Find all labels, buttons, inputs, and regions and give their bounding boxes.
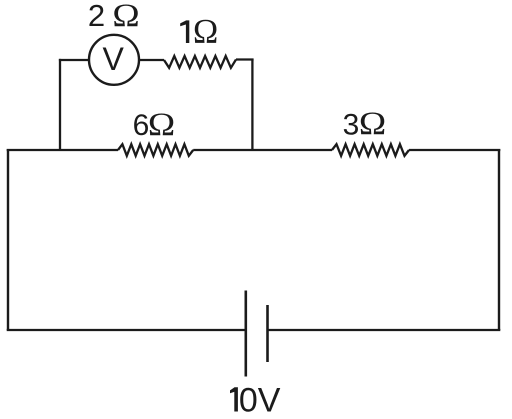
wire: main horizontal right segment (3-ohm to right corner) [409, 149, 500, 151]
svg-text:Ω: Ω [193, 13, 218, 52]
wire: main horizontal left segment (node A to 6-ohm) [7, 149, 118, 151]
label 10V [230, 382, 281, 419]
wire: right vertical of outer loop [498, 149, 500, 330]
resistor 6Ω [118, 144, 193, 156]
label 3Ω [343, 105, 387, 142]
label 2 Ω [88, 0, 140, 34]
label 1Ω [180, 13, 218, 52]
svg-text:2: 2 [88, 0, 105, 33]
wire: main horizontal middle segment (6-ohm to 3-ohm) [193, 149, 332, 151]
wire: voltmeter branch left vertical [59, 59, 61, 150]
svg-text:Ω: Ω [148, 106, 175, 143]
svg-text:V: V [103, 41, 125, 77]
wire: voltmeter to 1-ohm resistor [139, 59, 164, 61]
svg-text:6: 6 [133, 109, 150, 142]
battery 10V: short plate [266, 305, 269, 362]
svg-text:3: 3 [343, 109, 360, 142]
wire: voltmeter branch right vertical down to main line [251, 59, 253, 150]
svg-text:Ω: Ω [112, 0, 139, 34]
wire: left vertical of outer loop [7, 149, 9, 330]
resistor 3Ω [332, 144, 409, 156]
wire: bottom horizontal left segment [7, 329, 246, 331]
wire: 1-ohm to right corner of branch [236, 58, 254, 60]
resistor 1Ω [164, 56, 236, 68]
wire: voltmeter branch left horizontal [59, 59, 89, 61]
svg-text:Ω: Ω [359, 105, 386, 142]
voltmeter V [89, 35, 139, 85]
svg-text:0V: 0V [239, 382, 281, 419]
label 6Ω [133, 106, 176, 143]
wire: bottom horizontal right segment [268, 329, 501, 331]
battery 10V: long plate [245, 291, 248, 377]
